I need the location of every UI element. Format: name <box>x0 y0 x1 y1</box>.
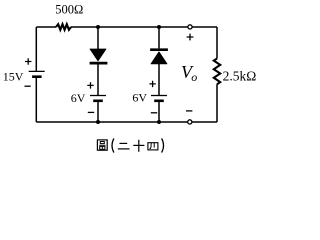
output terminal + (open circle, top) <box>188 25 192 29</box>
wire branch1 bottom <box>97 101 99 122</box>
plus sign of left 6V battery <box>87 82 93 88</box>
node junction bottom of branch 1 <box>96 120 100 124</box>
minus sign of left 6V battery <box>88 111 94 113</box>
wire left vertical (bottom half) <box>35 77 37 122</box>
wire branch2 middle <box>158 64 160 96</box>
wire top-left: from left corner to resistor <box>36 26 56 28</box>
caption 二 (hand-drawn glyph) <box>118 143 130 149</box>
node junction bottom of branch 2 <box>157 120 161 124</box>
output terminal - (open circle, bottom) <box>188 120 192 124</box>
minus sign of 15V battery <box>25 85 31 87</box>
wire left vertical (top half) <box>35 27 37 71</box>
wire branch1 middle <box>97 63 99 95</box>
wire bottom <box>36 121 217 123</box>
battery 15V <box>29 71 45 76</box>
node junction top of branch 2 <box>157 25 161 29</box>
wire branch1 top <box>97 27 99 50</box>
svg-text:6V: 6V <box>71 91 86 105</box>
battery 6V (right) <box>151 96 167 101</box>
label Vo <box>181 62 197 84</box>
caption opening parenthesis <box>112 138 114 152</box>
svg-text:6V: 6V <box>132 91 147 105</box>
wire branch2 bottom <box>158 101 160 122</box>
minus sign at output <box>186 110 192 112</box>
svg-text:2.5kΩ: 2.5kΩ <box>223 68 257 83</box>
wire right vertical (bottom) <box>216 84 218 122</box>
plus sign of 15V battery <box>25 58 31 64</box>
svg-text:o: o <box>191 70 197 84</box>
wire right vertical (top) <box>216 27 218 59</box>
battery 6V (left) <box>90 96 106 101</box>
svg-text:15V: 15V <box>3 69 24 83</box>
resistor 500Ω (zigzag) <box>56 24 71 30</box>
resistor 2.5kΩ (vertical zigzag) <box>214 59 220 85</box>
caption 四 (hand-drawn glyph) <box>148 143 158 150</box>
wire top: resistor to top-right corner <box>71 26 217 28</box>
node junction top of branch 1 <box>96 25 100 29</box>
plus sign of right 6V battery <box>149 81 155 87</box>
caption 十 (hand-drawn glyph) <box>133 140 144 152</box>
plus sign at output <box>187 34 194 41</box>
minus sign of right 6V battery <box>151 112 157 114</box>
caption closing parenthesis <box>162 138 164 152</box>
diode D1 (cathode down) <box>90 49 108 63</box>
diode D2 (cathode up) <box>150 50 168 64</box>
svg-text:500Ω: 500Ω <box>55 3 83 17</box>
wire branch2 top <box>158 27 160 48</box>
caption 圖 (hand-drawn glyph) <box>97 140 107 150</box>
